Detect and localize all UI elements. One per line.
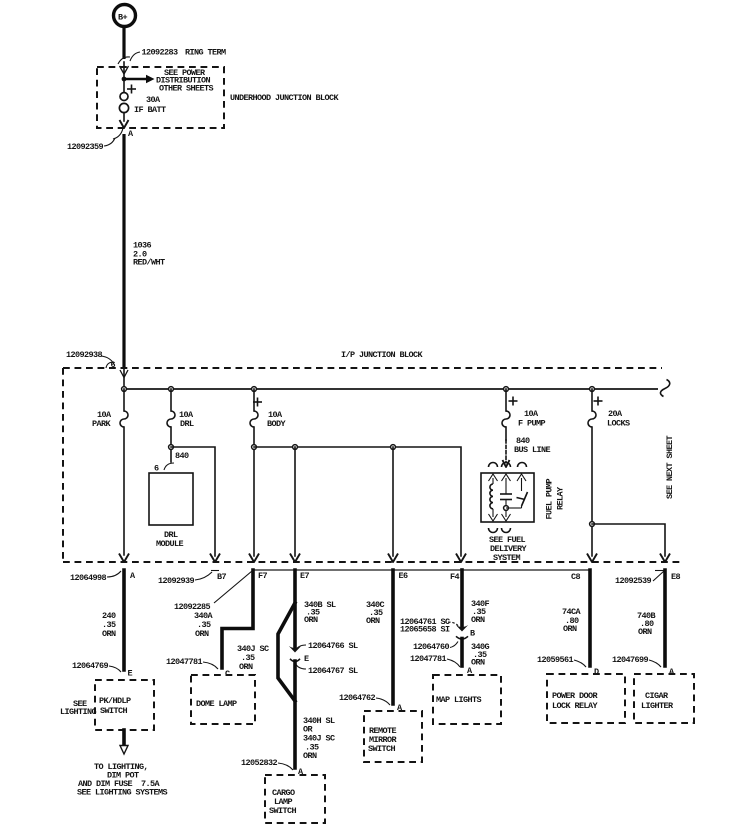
label 12092359 with pointer <box>67 138 115 152</box>
node BODY row dot <box>252 445 257 450</box>
svg-text:POWER DOOR: POWER DOOR <box>552 691 599 701</box>
node bus dot F PUMP <box>504 387 509 392</box>
label 10A BODY <box>267 410 287 429</box>
component POWER DOOR LOCK RELAY box <box>547 674 625 723</box>
plus mark LOCKS fuse <box>594 397 603 406</box>
svg-text:12052832: 12052832 <box>241 758 278 768</box>
svg-text:12092359: 12092359 <box>67 142 104 152</box>
wire E6 to remote mirror switch <box>391 570 395 704</box>
svg-text:SYSTEM: SYSTEM <box>493 553 521 563</box>
label 1036 2.0 RED/WHT <box>133 241 165 268</box>
label 740B .80 ORN <box>637 611 656 637</box>
svg-text:PK/HDLP: PK/HDLP <box>99 696 131 706</box>
svg-text:RELAY: RELAY <box>556 486 566 510</box>
wire E8 to cigar lighter <box>663 570 667 666</box>
label DRL MODULE <box>156 530 184 549</box>
svg-text:LIGHTING: LIGHTING <box>60 707 97 717</box>
label 12047781 with pointer, pin A <box>410 654 473 676</box>
svg-text:FUEL PUMP: FUEL PUMP <box>545 478 555 519</box>
relay coil pin arrows <box>489 474 527 521</box>
label 12047699 with pointer, pin A <box>612 655 675 677</box>
svg-text:12064767 SL: 12064767 SL <box>308 666 358 676</box>
node DRL junction dot 840 <box>169 445 174 450</box>
label 340B SL .35 ORN <box>304 600 336 625</box>
svg-text:12064760: 12064760 <box>413 642 450 652</box>
svg-text:LIGHTER: LIGHTER <box>641 701 674 711</box>
svg-text:12064766 SL: 12064766 SL <box>308 641 358 651</box>
wire main feed 1036 RED/WHT <box>122 134 125 367</box>
svg-text:6: 6 <box>154 464 159 474</box>
svg-text:12092939: 12092939 <box>158 576 195 586</box>
svg-text:OTHER SHEETS: OTHER SHEETS <box>159 83 214 93</box>
fuse 10A BODY <box>250 389 258 556</box>
connector arcs below relay <box>489 528 511 533</box>
wire PARK exit arrow <box>119 554 129 563</box>
svg-text:DRL: DRL <box>180 419 194 429</box>
node row dot E7 <box>293 445 298 450</box>
svg-text:SEE LIGHTING SYSTEMS: SEE LIGHTING SYSTEMS <box>77 788 168 798</box>
circuit breaker 30A IF BATT (two circles) <box>119 79 128 121</box>
wire A to PK/HDLP switch <box>122 570 126 670</box>
wire 840 bus line dashed drop with arrow <box>503 440 510 467</box>
node junction dot in underhood block <box>122 77 127 82</box>
svg-text:12092938: 12092938 <box>66 350 103 360</box>
inline connector 12064767 SL female end <box>290 659 300 662</box>
wire F4 upper segment <box>460 570 464 626</box>
svg-text:B7: B7 <box>217 572 227 582</box>
svg-text:12047781: 12047781 <box>410 654 447 664</box>
svg-text:12047699: 12047699 <box>612 655 649 665</box>
connector break below underhood block, pin A <box>113 128 134 139</box>
component fuel pump relay box U1 <box>481 473 534 522</box>
label 340F .35 ORN <box>471 599 490 625</box>
svg-text:BODY: BODY <box>267 419 287 429</box>
wire E7 upper segment <box>293 570 297 647</box>
svg-text:RED/WHT: RED/WHT <box>133 258 165 268</box>
svg-text:CIGAR: CIGAR <box>645 691 669 701</box>
wire E7 lower segment <box>293 661 297 768</box>
label 12092285 with pointer to F7 <box>174 571 252 612</box>
label 12059561 with pointer, pin D <box>537 655 599 677</box>
I/P junction block dashed border (no right edge) <box>63 368 682 562</box>
label 12064762 with pointer, pin A <box>339 693 403 713</box>
svg-text:ORN: ORN <box>563 624 577 634</box>
svg-text:SEE NEXT SHEET: SEE NEXT SHEET <box>665 435 675 499</box>
component PK/HDLP SWITCH box <box>95 680 154 730</box>
svg-text:E6: E6 <box>399 571 409 581</box>
inline connector 12064766 SL male end <box>289 646 301 653</box>
svg-text:12064998: 12064998 <box>70 573 107 583</box>
wire exit arrow at underhood block bottom <box>120 120 129 128</box>
wire BODY F7 exit arrow <box>249 554 259 563</box>
svg-text:12059561: 12059561 <box>537 655 574 665</box>
component REMOTE MIRROR SWITCH box <box>364 711 422 762</box>
bus break squiggle at right end <box>660 380 669 397</box>
node bus dot DRL <box>169 387 174 392</box>
plus mark 30A fuse polarity <box>127 85 136 94</box>
svg-text:20A: 20A <box>608 409 623 419</box>
svg-text:F PUMP: F PUMP <box>518 419 546 429</box>
label FUEL PUMP RELAY rotated <box>545 478 566 519</box>
wire B+ to underhood block <box>122 28 125 60</box>
svg-text:PARK: PARK <box>92 419 112 429</box>
connector arcs above fuel pump relay <box>489 463 527 468</box>
label SEE POWER DISTRIBUTION OTHER SHEETS <box>156 68 214 93</box>
wire C8 to power door lock relay <box>588 570 592 666</box>
label 12064760 with pointer <box>413 642 458 653</box>
svg-text:12064762: 12064762 <box>339 693 376 703</box>
svg-text:UNDERHOOD JUNCTION BLOCK: UNDERHOOD JUNCTION BLOCK <box>230 93 340 103</box>
svg-text:ORN: ORN <box>366 616 380 626</box>
svg-text:ORN: ORN <box>638 627 652 637</box>
svg-text:10A: 10A <box>524 409 539 419</box>
svg-text:12047781: 12047781 <box>166 657 203 667</box>
wire LOCKS to E8 exit <box>592 524 670 562</box>
label 340J SC .35 ORN <box>237 644 269 672</box>
node bus dot LOCKS <box>590 387 595 392</box>
svg-text:12092283: 12092283 <box>142 48 179 58</box>
wire BODY row to F4 <box>254 447 461 556</box>
label 340C .35 ORN <box>366 600 385 626</box>
svg-text:SWITCH: SWITCH <box>100 706 128 716</box>
label 340A .35 ORN <box>194 611 214 639</box>
label 30A IF BATT <box>134 95 166 115</box>
wire DRL junction to B7 exit <box>171 447 220 562</box>
svg-text:ORN: ORN <box>239 662 253 672</box>
component MAP LIGHTS box <box>433 675 501 724</box>
label SEE FUEL DELIVERY SYSTEM <box>489 535 528 563</box>
label SEE LIGHTING <box>60 699 97 717</box>
svg-text:E: E <box>128 669 133 679</box>
relay coil winding <box>490 478 493 517</box>
svg-text:MAP LIGHTS: MAP LIGHTS <box>436 695 482 705</box>
wire F7 to dome lamp <box>222 570 253 668</box>
connector break at ring term <box>118 57 130 64</box>
wire E6 drop <box>388 447 398 562</box>
svg-text:IF BATT: IF BATT <box>134 105 166 115</box>
component CARGO LAMP SWITCH box <box>265 775 325 823</box>
wire C8 exit arrow <box>587 554 597 563</box>
wire see-power-distribution arrow <box>124 75 155 83</box>
label 12064761 SC / 12065658 SI with pointer <box>400 617 459 635</box>
label 240 .35 ORN <box>102 611 116 639</box>
wire E7 bypass loop <box>278 603 295 701</box>
svg-text:SWITCH: SWITCH <box>269 806 297 816</box>
label 10A DRL <box>179 410 194 429</box>
svg-text:C8: C8 <box>571 572 581 582</box>
svg-text:LOCK RELAY: LOCK RELAY <box>552 701 599 711</box>
svg-text:MODULE: MODULE <box>156 539 184 549</box>
fuse 20A LOCKS <box>588 389 596 556</box>
svg-text:ORN: ORN <box>303 751 317 761</box>
svg-text:B+: B+ <box>118 13 128 23</box>
label 74CA .80 ORN <box>562 607 582 634</box>
svg-text:12065658 SI: 12065658 SI <box>400 625 450 635</box>
label 12064769 with pointer, pin E <box>72 661 133 679</box>
plus mark F PUMP fuse <box>509 397 518 406</box>
label 340H SL OR 340J SC .35 ORN <box>303 716 335 761</box>
label 340G .35 ORN <box>471 642 490 668</box>
wire PK/HDLP switch output arrow <box>120 730 128 754</box>
svg-text:12064769: 12064769 <box>72 661 109 671</box>
label 840 BUS LINE <box>514 436 551 455</box>
svg-text:12092539: 12092539 <box>615 576 652 586</box>
inline connector female end at F4 <box>456 636 468 639</box>
component CIGAR LIGHTER box <box>634 674 694 723</box>
node relay junction dot <box>504 506 509 511</box>
svg-text:30A: 30A <box>146 95 161 105</box>
label 10A F PUMP <box>518 409 546 429</box>
label 12064998 with pointer, pin A <box>70 571 136 583</box>
svg-text:ORN: ORN <box>471 658 485 668</box>
svg-text:D: D <box>594 667 599 677</box>
label 12052832 with pointer, pin A <box>241 758 304 777</box>
label 12092539 with pointer to E8 <box>615 571 664 587</box>
node row dot E6 <box>391 445 396 450</box>
label 12092938 with pointer <box>66 350 114 364</box>
wire entry arrow into I/P block <box>120 368 128 389</box>
inline connector male end at F4 <box>456 625 468 632</box>
label 12064766 SL with pointer <box>295 641 358 651</box>
svg-text:F7: F7 <box>258 571 268 581</box>
component DRL MODULE box <box>149 473 193 525</box>
node B+ ring terminal circle <box>114 5 136 27</box>
svg-text:LOCKS: LOCKS <box>607 419 630 429</box>
component DOME LAMP box <box>191 675 255 724</box>
wire F4 lower segment <box>460 639 464 667</box>
svg-text:F4: F4 <box>450 572 460 582</box>
fuse 10A F PUMP <box>502 389 510 440</box>
svg-text:B: B <box>470 629 475 639</box>
wire into underhood block with entry arrow <box>120 62 129 79</box>
relay switch contact <box>506 478 528 508</box>
svg-text:ORN: ORN <box>195 629 209 639</box>
plus mark BODY fuse <box>253 398 262 407</box>
wire main bus <box>124 388 658 390</box>
svg-text:ORN: ORN <box>102 629 116 639</box>
svg-text:I/P JUNCTION BLOCK: I/P JUNCTION BLOCK <box>341 350 424 360</box>
label 12047781 with pointer, pin C <box>166 657 230 679</box>
svg-text:840: 840 <box>175 451 189 461</box>
node bus dot BODY <box>252 387 257 392</box>
svg-text:E7: E7 <box>300 571 310 581</box>
label 12064767 SL with pointer <box>295 663 358 676</box>
label 10A PARK <box>92 410 112 429</box>
svg-text:ORN: ORN <box>304 615 318 625</box>
pin 16 at I/P block entry <box>106 360 116 370</box>
svg-text:RING TERM: RING TERM <box>185 48 226 58</box>
wire DRL module drop with break, pin 6 <box>154 450 174 474</box>
label TO LIGHTING DIM POT <box>77 762 168 798</box>
svg-text:SWITCH: SWITCH <box>368 744 396 754</box>
svg-text:E: E <box>304 654 309 664</box>
fuse 10A PARK <box>120 389 128 555</box>
node LOCKS branch dot <box>590 522 595 527</box>
label 12092939 with pointer, pin B7 <box>158 571 227 587</box>
label 20A LOCKS <box>607 409 630 429</box>
fuse 10A DRL <box>167 389 175 447</box>
svg-text:DOME LAMP: DOME LAMP <box>196 699 237 709</box>
underhood junction block dashed box <box>97 67 224 128</box>
label 12092283 RING TERM with pointer <box>130 48 226 62</box>
svg-text:E8: E8 <box>671 572 681 582</box>
wire F4 exit arrow <box>456 554 466 563</box>
connector face line below block <box>252 569 590 571</box>
svg-text:ORN: ORN <box>471 615 485 625</box>
wire E7 drop <box>290 447 300 562</box>
relay capacitor <box>500 478 512 517</box>
svg-text:BUS LINE: BUS LINE <box>514 445 551 455</box>
node bus dot PARK <box>122 387 127 392</box>
